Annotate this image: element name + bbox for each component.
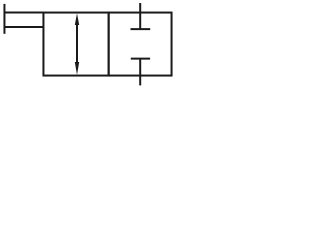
bottom electrode plate xyxy=(131,58,150,60)
wire (lower lead from plate to transducer body) xyxy=(4,26,44,28)
top electrode plate xyxy=(131,28,151,30)
wire (upper lead from plate to transducer body) xyxy=(4,12,44,14)
terminal plate (left common electrode bar) xyxy=(3,4,5,34)
transducer body right cell (electrode chamber rectangle) xyxy=(109,13,172,76)
transducer body left cell (rectangle with motion arrow) xyxy=(43,13,108,76)
motion arrow (double-headed, vertical) xyxy=(75,13,79,75)
top electrode lead (crosses top edge of right cell) xyxy=(139,3,141,29)
bottom electrode lead (crosses bottom edge of right cell) xyxy=(139,59,141,86)
